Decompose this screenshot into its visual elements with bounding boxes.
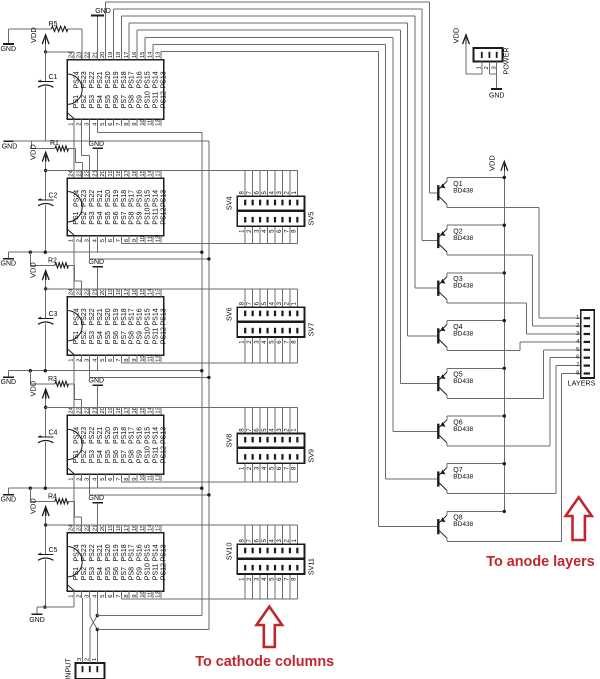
svg-text:3: 3 bbox=[576, 331, 579, 337]
svg-text:PS21: PS21 bbox=[97, 544, 104, 561]
svg-text:PS19: PS19 bbox=[113, 427, 120, 444]
wire ground to U5 pin1 bbox=[45, 606, 74, 608]
svg-text:PS10: PS10 bbox=[145, 446, 152, 463]
svg-text:PS22: PS22 bbox=[89, 544, 96, 561]
IC U3 bottom pin 4 stub bbox=[97, 355, 99, 362]
IC U1 top pin 17 stub bbox=[128, 52, 130, 60]
svg-text:VDD: VDD bbox=[488, 155, 497, 171]
svg-text:PS3: PS3 bbox=[89, 450, 96, 463]
wire layer3 down middle bbox=[414, 16, 416, 288]
svg-text:PS23: PS23 bbox=[81, 427, 88, 444]
svg-text:16: 16 bbox=[132, 170, 138, 176]
svg-text:PS5: PS5 bbox=[105, 450, 112, 463]
VDD rail vertical bbox=[503, 171, 505, 512]
transistor Q7 BD438 bbox=[437, 471, 439, 486]
IC U5 top pin 21 stub bbox=[97, 525, 99, 533]
wire SV7 pin 6 drop bbox=[281, 337, 283, 363]
svg-text:19: 19 bbox=[108, 407, 114, 413]
junction crossover lower bbox=[96, 628, 99, 631]
wire SV8 pin 5 drop bbox=[267, 407, 269, 433]
wire layer4 down middle bbox=[407, 23, 409, 336]
IC U5 bottom pin 3 stub bbox=[89, 591, 91, 598]
annotation arrow to cathode columns bbox=[257, 607, 283, 648]
IC U4 bottom pin 2 stub bbox=[81, 474, 83, 481]
IC U2 bottom pin 9 stub bbox=[136, 236, 138, 243]
svg-text:C2: C2 bbox=[49, 193, 58, 200]
svg-text:PS11: PS11 bbox=[152, 91, 159, 108]
svg-text:POWER: POWER bbox=[502, 47, 511, 74]
svg-text:13: 13 bbox=[156, 289, 162, 295]
IC U3 bottom pin 7 stub bbox=[120, 355, 122, 362]
junction Q1 emitter VDD bbox=[503, 176, 506, 179]
svg-text:3: 3 bbox=[84, 359, 90, 362]
IC U2 bottom pin 6 stub bbox=[112, 236, 114, 243]
wire R2 to U3 pin 23 bbox=[69, 264, 75, 266]
svg-text:8: 8 bbox=[124, 478, 130, 481]
IC U2 notch bbox=[67, 192, 82, 222]
svg-text:7: 7 bbox=[116, 478, 122, 481]
IC U2 top pin 21 stub bbox=[97, 171, 99, 179]
wire layer8 riser from U1 pin 13 bbox=[160, 50, 162, 53]
IC U2 bottom pin 11 stub bbox=[152, 236, 154, 243]
wire SV11 pin 6 drop bbox=[281, 574, 283, 599]
svg-text:GND: GND bbox=[1, 379, 17, 386]
svg-text:C4: C4 bbox=[49, 430, 58, 437]
wire layer2 top run bbox=[113, 8, 422, 10]
svg-text:PS2: PS2 bbox=[81, 95, 88, 108]
wire SV10 pin 2 drop bbox=[289, 525, 291, 544]
IC U1 top pin 14 stub bbox=[152, 52, 154, 60]
wire layer7 top run bbox=[153, 43, 386, 45]
wire SV11 pin 1 drop bbox=[244, 574, 246, 599]
svg-text:PS12: PS12 bbox=[160, 91, 167, 108]
svg-text:22: 22 bbox=[84, 525, 90, 531]
svg-text:VDD: VDD bbox=[29, 498, 38, 514]
IC U5 top pin 22 stub bbox=[89, 525, 91, 533]
wire U3 pin3 riser bbox=[89, 362, 91, 377]
svg-text:6: 6 bbox=[108, 123, 114, 126]
IC U2 bottom pin 2 stub bbox=[81, 236, 83, 243]
wire U4 pin3 riser bbox=[89, 481, 91, 495]
svg-text:8: 8 bbox=[576, 371, 579, 377]
IC U3 top pin 19 stub bbox=[112, 289, 114, 297]
svg-text:18: 18 bbox=[116, 525, 122, 531]
IC U3 pin1 corner mark bbox=[67, 349, 75, 356]
resistor R5 bbox=[51, 26, 68, 31]
wire SV4 pin 1 drop bbox=[296, 171, 298, 197]
svg-text:GND: GND bbox=[0, 46, 16, 53]
svg-text:PS3: PS3 bbox=[89, 331, 96, 344]
svg-text:PS20: PS20 bbox=[105, 190, 112, 207]
wire R3 to U4 pin 23 bbox=[69, 383, 75, 385]
svg-text:PS15: PS15 bbox=[145, 544, 152, 561]
svg-text:GND: GND bbox=[89, 495, 105, 502]
svg-text:PS15: PS15 bbox=[145, 427, 152, 444]
wire SV6 pin 6 drop bbox=[259, 289, 261, 307]
Q6 emitter wire bbox=[447, 415, 504, 417]
annotation arrow to anode layers bbox=[566, 497, 592, 540]
svg-text:VDD: VDD bbox=[29, 262, 38, 278]
IC U4 top pin 21 stub bbox=[97, 407, 99, 415]
wire INPUT pin1 up with crossover bbox=[96, 630, 98, 663]
wire U4 pin1 to U5 pin24 bbox=[73, 481, 75, 525]
wire layer3 top run bbox=[121, 15, 415, 17]
svg-text:PS2: PS2 bbox=[81, 567, 88, 580]
svg-text:PS18: PS18 bbox=[121, 190, 128, 207]
svg-text:22: 22 bbox=[84, 289, 90, 295]
IC U5 bottom pin 7 stub bbox=[120, 591, 122, 598]
wire layer7 riser from U1 pin 14 bbox=[152, 44, 154, 52]
svg-text:GND: GND bbox=[95, 8, 111, 15]
resistor R2 bbox=[29, 252, 31, 265]
wire SV9 pin 4 drop bbox=[267, 463, 269, 482]
IC U2 bottom pin 4 stub bbox=[97, 236, 99, 243]
svg-text:PS4: PS4 bbox=[97, 450, 104, 463]
wire U1 pin2 to U2 pin22 bbox=[81, 126, 83, 155]
svg-text:6: 6 bbox=[108, 595, 114, 598]
IC U4 top pin 22 stub bbox=[89, 407, 91, 415]
svg-text:PS23: PS23 bbox=[81, 71, 88, 88]
IC U2 top pin 23 stub bbox=[81, 171, 83, 179]
svg-text:2: 2 bbox=[576, 323, 579, 329]
svg-text:PS19: PS19 bbox=[113, 190, 120, 207]
IC U3 top pin 15 stub bbox=[144, 289, 146, 297]
svg-text:PS2: PS2 bbox=[81, 331, 88, 344]
wire SV11 pin 8 drop bbox=[296, 574, 298, 599]
svg-text:18: 18 bbox=[116, 289, 122, 295]
svg-text:3: 3 bbox=[84, 239, 90, 242]
svg-text:VDD: VDD bbox=[452, 27, 461, 43]
wire layer4 riser from U1 pin 17 bbox=[128, 23, 130, 52]
IC U2 top pin 13 stub bbox=[160, 171, 162, 179]
IC U1 bottom pin 11 stub bbox=[152, 119, 154, 126]
svg-text:PS6: PS6 bbox=[113, 331, 120, 344]
IC U5 top pin 17 stub bbox=[128, 525, 130, 533]
svg-text:R2: R2 bbox=[48, 258, 57, 265]
wire SV4 pin 3 drop bbox=[281, 171, 283, 197]
svg-text:3: 3 bbox=[84, 595, 90, 598]
ground rail row3 bbox=[8, 251, 202, 253]
svg-text:2: 2 bbox=[76, 478, 82, 481]
svg-text:PS24: PS24 bbox=[73, 544, 80, 561]
wire SV9 pin 8 drop bbox=[296, 463, 298, 482]
IC U1 bottom pin 7 stub bbox=[120, 119, 122, 126]
wire layer6 down middle bbox=[392, 37, 394, 431]
svg-text:GND: GND bbox=[29, 617, 45, 624]
svg-text:+: + bbox=[38, 552, 42, 558]
svg-text:18: 18 bbox=[116, 170, 122, 176]
IC U2 bottom pin 8 stub bbox=[128, 236, 130, 243]
wire SV9 pin 3 drop bbox=[259, 463, 261, 482]
IC U4 bottom pin 1 stub bbox=[73, 474, 75, 481]
wire C1 to ground link bbox=[45, 87, 47, 142]
IC U4 bottom pin 12 stub bbox=[160, 474, 162, 481]
Q7 collector wire to LAYERS pin 7 bbox=[447, 493, 556, 495]
IC U1 bottom pin 2 stub bbox=[81, 119, 83, 126]
junction row1 VDD bbox=[44, 50, 47, 53]
ground left row3 bbox=[7, 252, 9, 259]
svg-text:19: 19 bbox=[108, 289, 114, 295]
svg-text:6: 6 bbox=[108, 359, 114, 362]
IC U3 top pin 20 stub bbox=[104, 289, 106, 297]
svg-text:13: 13 bbox=[156, 525, 162, 531]
svg-text:+: + bbox=[38, 316, 42, 322]
wire SV4 pin 8 drop bbox=[244, 171, 246, 197]
svg-text:19: 19 bbox=[108, 525, 114, 531]
svg-text:PS9: PS9 bbox=[137, 567, 144, 580]
svg-text:R3: R3 bbox=[48, 376, 57, 383]
svg-text:8: 8 bbox=[124, 359, 130, 362]
wire R1 to U2 pin 23 bbox=[69, 148, 76, 150]
wire SV9 pin 5 drop bbox=[274, 463, 276, 482]
svg-text:PS13: PS13 bbox=[160, 308, 167, 325]
svg-text:10: 10 bbox=[140, 236, 146, 242]
IC U5 top pin 15 stub bbox=[144, 525, 146, 533]
IC U4 pin1 corner mark bbox=[67, 468, 75, 475]
connector POWER bbox=[473, 48, 502, 62]
svg-text:SV7: SV7 bbox=[307, 323, 316, 337]
svg-text:5: 5 bbox=[100, 595, 106, 598]
wire layer8 down middle bbox=[377, 51, 379, 526]
svg-text:PS1: PS1 bbox=[73, 95, 80, 108]
svg-text:To anode layers: To anode layers bbox=[486, 554, 595, 570]
ground link row2 / line2 bbox=[4, 140, 209, 142]
svg-text:SV9: SV9 bbox=[307, 449, 316, 463]
svg-text:19: 19 bbox=[108, 170, 114, 176]
wire layer5 riser from U1 pin 16 bbox=[136, 30, 138, 52]
svg-text:PS20: PS20 bbox=[105, 544, 112, 561]
resistor R3 bbox=[29, 371, 31, 384]
svg-text:9: 9 bbox=[132, 478, 138, 481]
svg-text:PS10: PS10 bbox=[145, 563, 152, 580]
IC U2 body bbox=[67, 178, 164, 236]
svg-text:PS7: PS7 bbox=[121, 450, 128, 463]
junction line2-B row4 bbox=[207, 376, 210, 379]
wire SV9 pin 2 drop bbox=[252, 463, 254, 482]
svg-text:PS14: PS14 bbox=[152, 71, 159, 88]
IC U4 top pin 20 stub bbox=[104, 407, 106, 415]
svg-text:BD438: BD438 bbox=[453, 330, 473, 337]
svg-text:16: 16 bbox=[132, 289, 138, 295]
wire SV9 pin 1 drop bbox=[244, 463, 246, 482]
svg-text:PS7: PS7 bbox=[121, 95, 128, 108]
svg-text:PS14: PS14 bbox=[152, 427, 159, 444]
svg-text:GND: GND bbox=[2, 144, 18, 151]
IC U3 notch bbox=[67, 311, 82, 341]
wire U2 pin1 to U3 pin24 bbox=[73, 243, 75, 289]
IC U4 bottom pin 9 stub bbox=[136, 474, 138, 481]
Q4 collector wire to LAYERS pin 4 bbox=[447, 350, 520, 352]
IC U4 bottom pin 11 stub bbox=[152, 474, 154, 481]
ground bottom left bbox=[43, 605, 46, 608]
svg-text:PS10: PS10 bbox=[145, 91, 152, 108]
IC U3 bottom pin 3 stub bbox=[89, 355, 91, 362]
Q5 emitter wire bbox=[447, 367, 504, 369]
svg-text:15: 15 bbox=[140, 407, 146, 413]
svg-text:PS19: PS19 bbox=[113, 308, 120, 325]
svg-text:2: 2 bbox=[76, 123, 82, 126]
IC U5 bottom pin 10 stub bbox=[144, 591, 146, 598]
wire layer8 to Q8 base bbox=[378, 526, 438, 528]
ground rail row5 bbox=[8, 487, 202, 489]
svg-text:PS7: PS7 bbox=[121, 567, 128, 580]
svg-text:18: 18 bbox=[116, 52, 122, 58]
svg-text:GND: GND bbox=[89, 378, 105, 385]
IC U4 bottom pin 10 stub bbox=[144, 474, 146, 481]
svg-text:PS4: PS4 bbox=[97, 95, 104, 108]
capacitor C5 bbox=[45, 525, 47, 555]
IC U5 bottom pin 1 stub bbox=[73, 591, 75, 598]
junction rail-C row5 bbox=[44, 487, 47, 490]
svg-text:1: 1 bbox=[69, 595, 75, 598]
svg-text:To cathode columns: To cathode columns bbox=[195, 654, 334, 670]
IC U4 bottom pin 3 stub bbox=[89, 474, 91, 481]
svg-text:9: 9 bbox=[132, 595, 138, 598]
IC U5 bottom pin 12 stub bbox=[160, 591, 162, 598]
svg-text:BD438: BD438 bbox=[453, 283, 473, 290]
wire SV4 pin 2 drop bbox=[289, 171, 291, 197]
Q3 emitter wire bbox=[447, 272, 504, 274]
wire crossover to bus B bbox=[97, 629, 209, 631]
svg-text:PS1: PS1 bbox=[73, 567, 80, 580]
svg-text:VDD: VDD bbox=[29, 27, 38, 43]
svg-text:VDD: VDD bbox=[29, 380, 38, 396]
transistor Q5 BD438 bbox=[437, 376, 439, 391]
IC U3 top pin 21 stub bbox=[97, 289, 99, 297]
second line row4 bbox=[90, 376, 209, 378]
wire SV4 pin 6 drop bbox=[259, 171, 261, 197]
wire layer7 to Q7 base bbox=[386, 478, 439, 480]
svg-text:12: 12 bbox=[156, 119, 162, 125]
wire layer4 to Q4 base bbox=[408, 335, 439, 337]
resistor R5 rail wire bbox=[8, 28, 51, 30]
svg-text:+: + bbox=[38, 79, 42, 85]
wire crossover up to U5 bbox=[96, 598, 98, 615]
svg-text:5: 5 bbox=[576, 347, 579, 353]
junction Q4 emitter VDD bbox=[503, 319, 506, 322]
Q1 collector wire to LAYERS pin 1 bbox=[447, 207, 539, 209]
wire SV8 pin 7 drop bbox=[252, 407, 254, 433]
wire layer5 down middle bbox=[399, 30, 401, 383]
IC U3 top pin 17 stub bbox=[128, 289, 130, 297]
svg-text:16: 16 bbox=[132, 407, 138, 413]
IC U5 body bbox=[67, 533, 164, 592]
svg-text:19: 19 bbox=[108, 52, 114, 58]
IC U3 bottom pin 8 stub bbox=[128, 355, 130, 362]
IC U5 top pin 19 stub bbox=[112, 525, 114, 533]
wire SV10 pin 4 drop bbox=[274, 525, 276, 544]
IC U4 top pin 17 stub bbox=[128, 407, 130, 415]
svg-text:7: 7 bbox=[116, 595, 122, 598]
IC U2 top pin 24 stub bbox=[73, 171, 75, 179]
IC U2 bottom pin 7 stub bbox=[120, 236, 122, 243]
svg-text:1: 1 bbox=[69, 123, 75, 126]
IC U1 top pin 20 stub bbox=[104, 52, 106, 60]
svg-text:2: 2 bbox=[76, 359, 82, 362]
wire U2 pin4 riser bbox=[97, 243, 99, 253]
svg-text:PS4: PS4 bbox=[97, 211, 104, 224]
bottom comb row2 bbox=[121, 243, 297, 245]
wire SV7 pin 4 drop bbox=[267, 337, 269, 363]
wire SV5 pin 8 drop bbox=[296, 226, 298, 243]
IC U1 body bbox=[67, 60, 164, 120]
IC U1 bottom pin 8 stub bbox=[128, 119, 130, 126]
svg-text:LAYERS: LAYERS bbox=[568, 379, 596, 388]
svg-text:PS14: PS14 bbox=[152, 308, 159, 325]
Q3 collector wire to LAYERS pin 3 bbox=[447, 302, 526, 304]
svg-text:PS9: PS9 bbox=[137, 331, 144, 344]
svg-text:3: 3 bbox=[84, 123, 90, 126]
svg-text:PS21: PS21 bbox=[97, 190, 104, 207]
svg-text:PS12: PS12 bbox=[160, 207, 167, 224]
wire R4 to U5 pin 23 bbox=[69, 500, 75, 502]
svg-text:PS15: PS15 bbox=[145, 308, 152, 325]
svg-text:PS10: PS10 bbox=[145, 327, 152, 344]
svg-text:SV5: SV5 bbox=[307, 212, 316, 226]
svg-text:GND: GND bbox=[1, 497, 17, 504]
svg-text:PS22: PS22 bbox=[89, 427, 96, 444]
wire C2 to rail bbox=[45, 205, 47, 252]
IC U3 bottom pin 6 stub bbox=[112, 355, 114, 362]
svg-text:PS11: PS11 bbox=[152, 563, 159, 580]
svg-text:PS9: PS9 bbox=[137, 211, 144, 224]
wire SV6 pin 3 drop bbox=[281, 289, 283, 307]
IC U3 body bbox=[67, 297, 164, 356]
svg-text:BD438: BD438 bbox=[453, 426, 473, 433]
svg-text:PS1: PS1 bbox=[73, 331, 80, 344]
wire layer5 top run bbox=[137, 29, 400, 31]
wire SV11 pin 4 drop bbox=[267, 574, 269, 599]
IC U4 bottom pin 5 stub bbox=[104, 474, 106, 481]
bottom comb row3 bbox=[121, 362, 297, 364]
resistor R1 bbox=[31, 141, 33, 148]
second line row5 bbox=[90, 494, 209, 496]
svg-text:PS8: PS8 bbox=[129, 331, 136, 344]
wire SV9 pin 6 drop bbox=[281, 463, 283, 482]
svg-text:22: 22 bbox=[84, 407, 90, 413]
svg-text:1: 1 bbox=[69, 478, 75, 481]
wire R5 to U1 pin 23 bbox=[68, 28, 82, 30]
svg-text:PS19: PS19 bbox=[113, 71, 120, 88]
junction rail-R row4 bbox=[29, 369, 32, 372]
svg-text:PS1: PS1 bbox=[73, 450, 80, 463]
IC U2 bottom pin 1 stub bbox=[73, 236, 75, 243]
wire U1 pin3 riser bbox=[89, 126, 91, 141]
svg-text:7: 7 bbox=[116, 239, 122, 242]
wire SV7 pin 8 drop bbox=[296, 337, 298, 363]
resistor R4 bbox=[29, 488, 31, 501]
svg-text:22: 22 bbox=[84, 52, 90, 58]
wire POWER pin3 to ground bbox=[496, 62, 498, 89]
wire SV9 pin 7 drop bbox=[289, 463, 291, 482]
svg-text:PS8: PS8 bbox=[129, 450, 136, 463]
wire SV8 pin 2 drop bbox=[289, 407, 291, 433]
IC U2 top pin 17 stub bbox=[128, 171, 130, 179]
svg-text:10: 10 bbox=[140, 591, 146, 597]
wire INPUT pin3 up bbox=[82, 598, 84, 663]
wire SV10 pin 7 drop bbox=[252, 525, 254, 544]
IC U4 top pin 19 stub bbox=[112, 407, 114, 415]
svg-text:PS5: PS5 bbox=[105, 211, 112, 224]
ground above U1 bbox=[97, 16, 99, 60]
VDD comb row5 bbox=[46, 524, 298, 526]
capacitor C1 bbox=[45, 52, 47, 82]
svg-text:PS6: PS6 bbox=[113, 567, 120, 580]
connector SV6 bbox=[237, 307, 304, 321]
svg-text:17: 17 bbox=[124, 525, 130, 531]
svg-text:PS4: PS4 bbox=[97, 567, 104, 580]
junction rail-C row4 bbox=[44, 369, 47, 372]
